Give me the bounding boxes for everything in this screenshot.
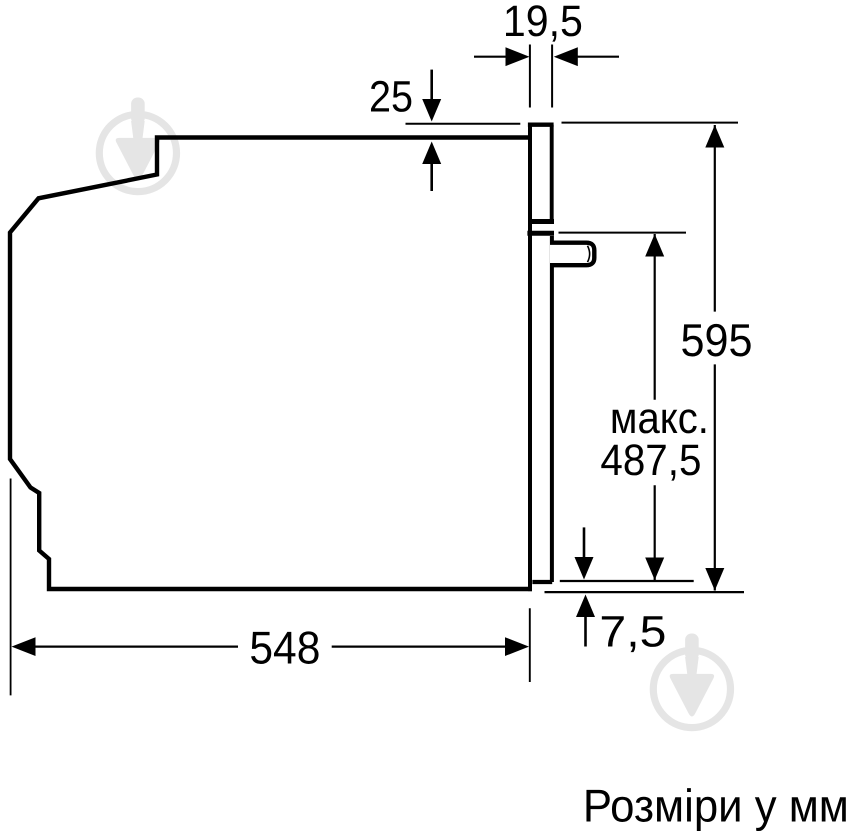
reference line top right (595 dim): [562, 122, 739, 124]
oven body outline: [10, 138, 532, 590]
front frame upper right vertical: [550, 125, 554, 219]
arrowhead 548 left-pointing: [12, 637, 36, 656]
extension line 19,5 right: [551, 45, 553, 108]
svg-text:487,5: 487,5: [600, 436, 701, 485]
arrowhead 548 right-pointing: [505, 637, 529, 656]
svg-text:548: 548: [249, 621, 320, 673]
arrowhead 19,5 left-pointing: [554, 47, 578, 66]
arrowhead макс up: [645, 234, 664, 257]
svg-text:25: 25: [369, 72, 413, 121]
dimension line 19,5 left part: [474, 56, 507, 58]
bottom reference line 595/7,5: [545, 591, 745, 593]
arrowhead макс down: [645, 558, 664, 581]
door handle: [550, 243, 594, 266]
watermark logo bottom-right: [653, 634, 730, 728]
oven front frame left vertical: [528, 123, 532, 591]
arrowhead 595 down: [705, 568, 724, 591]
extension line 548 left: [10, 479, 12, 696]
arrow 7,5 upper (down-pointing): [583, 527, 586, 558]
reference line макс top: [559, 232, 687, 234]
arrow 25 upper (down-pointing): [430, 70, 433, 101]
dimension line 595: [714, 125, 716, 312]
front frame top cap: [528, 123, 554, 127]
arrow 7,5 lower (up-pointing): [584, 616, 587, 647]
arrow 25 lower (up-pointing): [430, 162, 433, 191]
svg-text:19,5: 19,5: [503, 0, 583, 46]
svg-text:Розміри у мм: Розміри у мм: [583, 780, 848, 832]
arrowhead 19,5 right-pointing: [506, 47, 530, 66]
svg-text:7,5: 7,5: [599, 607, 666, 656]
door top cap: [527, 231, 554, 236]
reference line top left of frame (25 dim): [406, 123, 521, 125]
dimension line макс 487,5: [654, 234, 656, 400]
dimension line 548: [35, 645, 238, 647]
arrowhead 595 up: [705, 125, 724, 148]
door right vertical: [550, 236, 554, 582]
extension line 19,5 left: [529, 45, 531, 108]
reference line макс bottom / door bottom ext: [560, 580, 694, 582]
dimension line 19,5 right part: [576, 56, 619, 58]
watermark logo top-left: [99, 98, 176, 192]
extension line 548 right: [529, 608, 531, 682]
handle end seam: [588, 246, 590, 262]
door bottom cap: [532, 580, 552, 584]
front frame upper bottom cap: [529, 219, 554, 224]
svg-text:595: 595: [681, 314, 753, 366]
